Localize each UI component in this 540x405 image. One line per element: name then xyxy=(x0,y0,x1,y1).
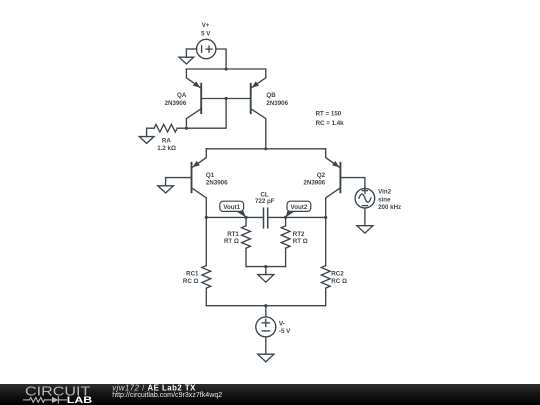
voltage source V+ xyxy=(197,39,216,58)
ground at V- xyxy=(258,337,274,362)
transistor Q2 2N3906 xyxy=(326,149,341,218)
svg-text:QB: QB xyxy=(266,92,276,99)
junction rail3 RT1 xyxy=(244,216,247,219)
transistor QB 2N3906 xyxy=(251,69,266,149)
wire Q1 base xyxy=(166,177,192,179)
svg-text:RC = 1.4k: RC = 1.4k xyxy=(316,120,345,127)
svg-text:2N3906: 2N3906 xyxy=(266,100,288,107)
label QA 2N3906 xyxy=(165,92,187,107)
label RC1 RC Ohm xyxy=(183,271,199,285)
label RT2 RT Ohm xyxy=(293,231,308,245)
junction rail3 right xyxy=(324,216,327,219)
junction QA collector / RA xyxy=(185,127,188,130)
svg-text:RC1: RC1 xyxy=(186,271,199,278)
footer bar xyxy=(0,384,540,405)
svg-text:Q1: Q1 xyxy=(206,172,215,179)
svg-text:RT = 150: RT = 150 xyxy=(316,110,342,117)
wire V+ right lead down to rail xyxy=(216,49,226,69)
resistor RT2 xyxy=(281,217,290,266)
svg-text:http://circuitlab.com/c9r3xz7f: http://circuitlab.com/c9r3xz7fk4wq2 xyxy=(112,390,222,399)
label QB 2N3906 xyxy=(266,92,288,107)
junction base wire xyxy=(225,97,228,100)
svg-text:Vin2: Vin2 xyxy=(378,189,392,196)
node Vout2 xyxy=(286,201,311,217)
label RA 1.2 kOhm xyxy=(157,138,176,152)
svg-text:Q2: Q2 xyxy=(317,172,326,179)
svg-text:RC Ω: RC Ω xyxy=(183,278,199,285)
svg-text:RC2: RC2 xyxy=(331,271,344,278)
wire V+ left lead xyxy=(186,48,196,50)
svg-text:1.2 kΩ: 1.2 kΩ xyxy=(157,145,176,152)
svg-text:LAB: LAB xyxy=(67,395,93,405)
svg-text:V-: V- xyxy=(279,321,285,328)
svg-text:-5 V: -5 V xyxy=(279,328,291,335)
resistor RT1 xyxy=(242,217,251,266)
label V- -5V xyxy=(279,321,291,335)
transistor Q1 2N3906 xyxy=(192,149,207,218)
svg-text:5 V: 5 V xyxy=(201,30,211,37)
svg-text:Vout2: Vout2 xyxy=(291,204,308,211)
label Q1 2N3906 xyxy=(206,172,228,187)
svg-text:sine: sine xyxy=(378,196,391,203)
junction bottom rail xyxy=(264,304,267,307)
junction rail3 RT2 xyxy=(284,216,287,219)
svg-text:RA: RA xyxy=(162,138,171,145)
ground at Q1 base xyxy=(158,178,174,193)
ground at V+ xyxy=(179,49,194,64)
junction RT bottom xyxy=(264,265,267,268)
wire to V- xyxy=(265,306,267,317)
svg-text:2N3906: 2N3906 xyxy=(206,180,228,187)
junction rail3 left xyxy=(205,216,208,219)
label Q2 2N3906 xyxy=(303,172,325,187)
wire bottom rail xyxy=(206,305,325,307)
svg-text:RT1: RT1 xyxy=(227,231,239,238)
resistor RC1 xyxy=(202,217,211,305)
label Vin2 sine 200kHz xyxy=(378,189,401,211)
resistor RA 1.2k xyxy=(147,124,187,132)
logo wire-resistor-diode xyxy=(24,397,67,403)
svg-text:RT2: RT2 xyxy=(293,231,305,238)
wire top supply rail xyxy=(186,68,265,70)
svg-text:2N3906: 2N3906 xyxy=(303,180,325,187)
ground at Vin2 xyxy=(357,208,373,233)
wire RT bottom xyxy=(246,266,286,268)
junction top rail xyxy=(225,67,228,70)
ground at RA xyxy=(139,128,154,143)
svg-text:V+: V+ xyxy=(202,22,210,29)
wire emitter rail xyxy=(206,148,325,150)
junction emitter rail xyxy=(264,147,267,150)
svg-text:722 pF: 722 pF xyxy=(255,198,275,205)
voltage source V- xyxy=(256,317,276,337)
wire QA-QB base xyxy=(201,98,251,100)
label CL 722 pF xyxy=(255,191,275,205)
svg-text:200 kHz: 200 kHz xyxy=(378,204,401,211)
svg-text:QA: QA xyxy=(177,92,187,99)
label RT1 RT Ohm xyxy=(224,231,239,245)
resistor RC2 xyxy=(321,217,330,305)
node Vout1 xyxy=(220,201,246,217)
svg-text:RT Ω: RT Ω xyxy=(293,238,308,245)
note RT/RC values xyxy=(316,110,345,127)
wire output rail right xyxy=(268,216,326,218)
capacitor CL 722pF xyxy=(264,208,268,228)
wire Q2 base to Vin2 xyxy=(340,178,365,189)
label V+ 5V xyxy=(201,22,211,37)
transistor QA 2N3906 xyxy=(186,69,201,128)
svg-text:Vout1: Vout1 xyxy=(223,204,240,211)
label RC2 RC Ohm xyxy=(331,271,347,285)
voltage source Vin2 sine xyxy=(355,188,375,208)
wire output rail left xyxy=(206,216,263,218)
svg-text:RC Ω: RC Ω xyxy=(331,278,347,285)
svg-text:2N3906: 2N3906 xyxy=(165,100,187,107)
svg-text:RT Ω: RT Ω xyxy=(224,238,239,245)
ground at RT xyxy=(258,267,274,283)
wire base-collector tie xyxy=(186,99,226,129)
